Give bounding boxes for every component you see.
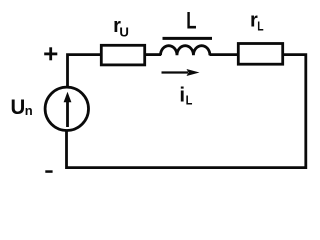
svg-text:L: L: [186, 8, 197, 35]
inductor L1 (L) coil: three humps: [161, 46, 210, 56]
current source arrow (pointing up): [64, 92, 72, 127]
plus sign at source + terminal: [44, 47, 57, 60]
svg-text:i: i: [179, 84, 185, 107]
wire: between r_U and inductor: [146, 53, 162, 56]
svg-text:L: L: [186, 93, 193, 108]
wire: between inductor and r_L: [210, 53, 239, 56]
label r_U: [113, 15, 129, 40]
label i_L: [179, 84, 192, 108]
svg-text:n: n: [25, 103, 33, 118]
label r_L: [250, 10, 264, 34]
wire: top-left vertical from source + terminal up to top rail: [68, 55, 101, 87]
current arrow i_L under inductor: [162, 69, 200, 76]
svg-text:L: L: [257, 20, 263, 34]
label L: [186, 8, 197, 35]
resistor R1 (r_U): [101, 45, 144, 65]
minus sign at source - terminal: [45, 170, 52, 173]
resistor R2 (r_L): [238, 44, 282, 65]
inductor core bar: [163, 37, 213, 40]
wire: from r_L right, down right side, along bottom, up to source - terminal: [67, 55, 306, 168]
label U_n: [11, 95, 33, 119]
svg-text:U: U: [11, 95, 26, 119]
current source U1 (U_n): circle: [45, 87, 88, 130]
svg-text:U: U: [119, 25, 129, 40]
